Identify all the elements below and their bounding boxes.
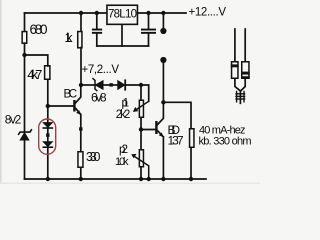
p1 top node dot xyxy=(139,83,143,87)
wire p2 bottom to ground xyxy=(140,168,142,180)
wire top rail left segment xyxy=(25,12,107,14)
wire connector lower xyxy=(162,62,164,102)
transistor BD137 (NPN) xyxy=(155,102,164,179)
wire node A to zener xyxy=(24,55,26,131)
capacitor C1 top lead xyxy=(96,13,98,29)
+7.2 node dot xyxy=(79,83,83,87)
rail dot C1 xyxy=(95,11,99,15)
ground rail dot output resistor xyxy=(189,177,193,181)
svg-text:8v2: 8v2 xyxy=(5,113,22,127)
wire +7.2V rail xyxy=(81,84,95,86)
wire top rail right segment xyxy=(139,12,187,14)
resistor 4k7 xyxy=(45,66,50,80)
node dot between diodes xyxy=(110,83,113,86)
wire LED string to ground xyxy=(47,147,49,179)
wire collector node to output resistor xyxy=(163,102,191,128)
regulator 78L10 box xyxy=(107,5,138,24)
capacitor C2 bottom lead xyxy=(148,34,150,46)
wire 680 to node A xyxy=(24,43,26,55)
plug tip thread xyxy=(236,91,245,104)
trimmer p2 wiper arrow xyxy=(131,154,149,179)
ground rail dot p2 xyxy=(139,177,143,181)
wire between LEDs xyxy=(47,128,49,142)
zener diode 6v8 xyxy=(93,79,109,91)
capacitor C1 plates xyxy=(92,29,102,34)
connector terminal upper xyxy=(160,28,166,34)
plug body left xyxy=(232,62,238,79)
node B dot xyxy=(46,104,50,108)
wire base of BC xyxy=(48,105,74,107)
capacitor C2 top lead xyxy=(148,13,150,29)
rail dot connector stub xyxy=(161,11,165,15)
svg-text:1k: 1k xyxy=(65,31,74,45)
transistor BC (NPN) xyxy=(73,85,81,151)
wire 4k7 to node B xyxy=(47,80,49,106)
wire connector stub from rail xyxy=(162,13,164,29)
emitter square dot xyxy=(79,127,82,130)
plug body right xyxy=(242,62,249,79)
BD collector node dot xyxy=(161,100,165,104)
svg-text:4k7: 4k7 xyxy=(27,67,42,82)
wire 330 to ground xyxy=(80,168,82,179)
LED D2 in red circle xyxy=(43,142,52,147)
wire 680 column upper xyxy=(24,13,26,31)
trimmer p2 body xyxy=(139,150,143,167)
svg-text:2k2: 2k2 xyxy=(116,109,131,121)
ground bus under regulator xyxy=(97,45,149,47)
svg-text:137: 137 xyxy=(168,134,184,148)
svg-text:330: 330 xyxy=(86,150,101,164)
red highlight oval around LEDs xyxy=(39,119,56,154)
svg-text:78L10: 78L10 xyxy=(108,9,137,21)
rail dot C2 xyxy=(146,11,150,15)
plug cone right xyxy=(241,79,245,91)
p1-p2 node dot xyxy=(139,127,143,131)
plug cone left xyxy=(235,79,240,91)
svg-text:10k: 10k xyxy=(115,156,129,168)
LED D1 in red circle xyxy=(43,123,52,128)
resistor 330 output (40 mA) xyxy=(190,129,194,148)
zener diode 8v2 xyxy=(19,130,32,179)
rail dot 1k xyxy=(79,11,83,15)
svg-text:p1: p1 xyxy=(122,98,130,110)
wire p1 to p2 node xyxy=(140,118,142,130)
node A dot xyxy=(22,53,26,57)
wire 1k to +7.2 node xyxy=(80,48,82,86)
plug wire left xyxy=(234,29,236,61)
svg-text:6v8: 6v8 xyxy=(91,91,107,105)
wire node A to 4k7 xyxy=(25,55,48,66)
ground rail dot 330 xyxy=(79,177,83,181)
plug wire right xyxy=(244,29,246,61)
trimmer p1 body xyxy=(139,100,143,117)
diode D3 xyxy=(118,80,141,89)
wire node B to LED string xyxy=(47,106,49,123)
svg-text:BC: BC xyxy=(64,89,78,101)
ground rail dot LED xyxy=(46,177,50,181)
wire base of BD xyxy=(141,129,155,131)
wire 1k column xyxy=(80,13,82,31)
connector terminal lower xyxy=(160,57,166,63)
plug body left band xyxy=(231,64,239,67)
svg-text:+7,2...V: +7,2...V xyxy=(82,64,120,76)
svg-text:680: 680 xyxy=(30,22,48,37)
LED mid square dot xyxy=(46,133,49,136)
svg-text:p2: p2 xyxy=(119,144,128,156)
wire p1 top lead xyxy=(140,85,142,100)
bottom rail xyxy=(25,178,207,180)
wire p1 bypass to wiper xyxy=(141,85,149,101)
ground rail dot p2 wiper xyxy=(147,177,151,181)
resistor 1k xyxy=(78,32,82,48)
wire p2 top lead xyxy=(140,130,142,150)
resistor 330 (BC emitter) xyxy=(78,152,83,168)
wire output resistor to ground xyxy=(190,148,192,179)
capacitor C2 plates xyxy=(141,29,156,34)
trimmer p1 wiper arrow xyxy=(133,101,149,112)
plug body right bands xyxy=(241,72,250,79)
svg-text:kb. 330 ohm: kb. 330 ohm xyxy=(199,136,252,148)
ground rail dot BD emitter xyxy=(161,177,165,181)
svg-text:+12....V: +12....V xyxy=(189,7,227,19)
wire xyxy=(113,84,118,86)
regulator 78L10 ground pin xyxy=(121,25,123,46)
resistor 680 xyxy=(22,32,27,44)
capacitor C1 bottom lead xyxy=(96,34,98,46)
